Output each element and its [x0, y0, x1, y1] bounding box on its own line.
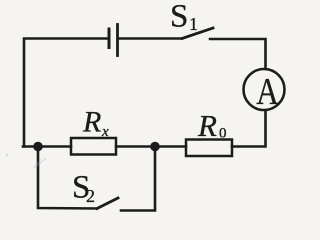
svg-text:R: R [197, 108, 217, 143]
svg-text:1: 1 [189, 14, 198, 34]
svg-text:A: A [256, 70, 279, 113]
svg-text:2: 2 [86, 186, 95, 206]
svg-text:0: 0 [219, 126, 227, 142]
svg-text:S: S [170, 0, 188, 35]
svg-text:x: x [101, 124, 109, 140]
svg-text:R: R [82, 106, 101, 139]
